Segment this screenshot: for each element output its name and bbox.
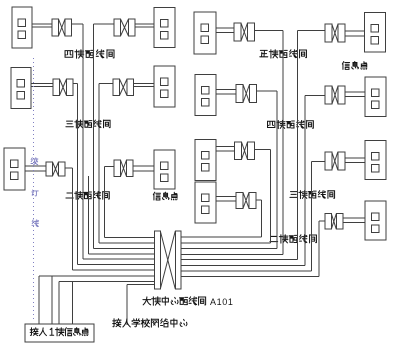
svg-text:A101: A101 <box>210 297 233 307</box>
